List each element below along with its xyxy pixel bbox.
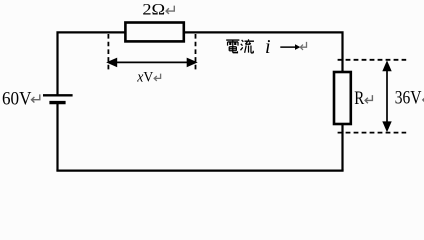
arrow: horizontal double-headed xV arrow	[106, 58, 198, 68]
dashed line: right edge of xV span	[195, 34, 197, 70]
battery: long positive plate	[43, 94, 73, 96]
wire: bottom return wire	[56, 170, 343, 172]
return mark after 2Ω	[166, 6, 174, 14]
dashed line: top edge of 36V span	[338, 59, 407, 61]
wire: battery positive up to top-left corner and across to resistor 2Ω	[58, 32, 125, 95]
return mark after 36V (clipped at edge)	[423, 95, 424, 103]
svg-text:2Ω: 2Ω	[142, 1, 165, 18]
svg-text:R: R	[354, 88, 364, 109]
arrow: current direction arrow	[280, 44, 300, 50]
wire: battery negative down to bottom-left corner	[56, 103, 58, 171]
return mark after 60V	[32, 94, 40, 102]
svg-text:xV: xV	[136, 70, 153, 86]
svg-text:36V: 36V	[395, 87, 422, 108]
label 電流 (current) : glyph 流	[240, 39, 253, 53]
arrow: vertical double-headed 36V arrow	[382, 60, 391, 132]
resistor 2Ω (box)	[125, 23, 183, 42]
dashed line: left edge of xV span	[107, 34, 109, 70]
dashed line: bottom edge of 36V span	[338, 132, 407, 134]
battery: short negative plate	[49, 101, 65, 104]
resistor R (box)	[334, 72, 351, 124]
return mark after R	[365, 95, 372, 103]
wire: resistor 2Ω to top-right corner and down to resistor R	[185, 32, 343, 72]
return mark after current arrow	[300, 42, 306, 50]
return mark after xV	[154, 74, 160, 81]
svg-text:i: i	[265, 36, 271, 58]
wire: resistor R bottom down to bottom-right corner	[341, 125, 343, 171]
svg-text:60V: 60V	[2, 89, 32, 110]
label 電流 (current) : glyph 電	[226, 40, 239, 53]
